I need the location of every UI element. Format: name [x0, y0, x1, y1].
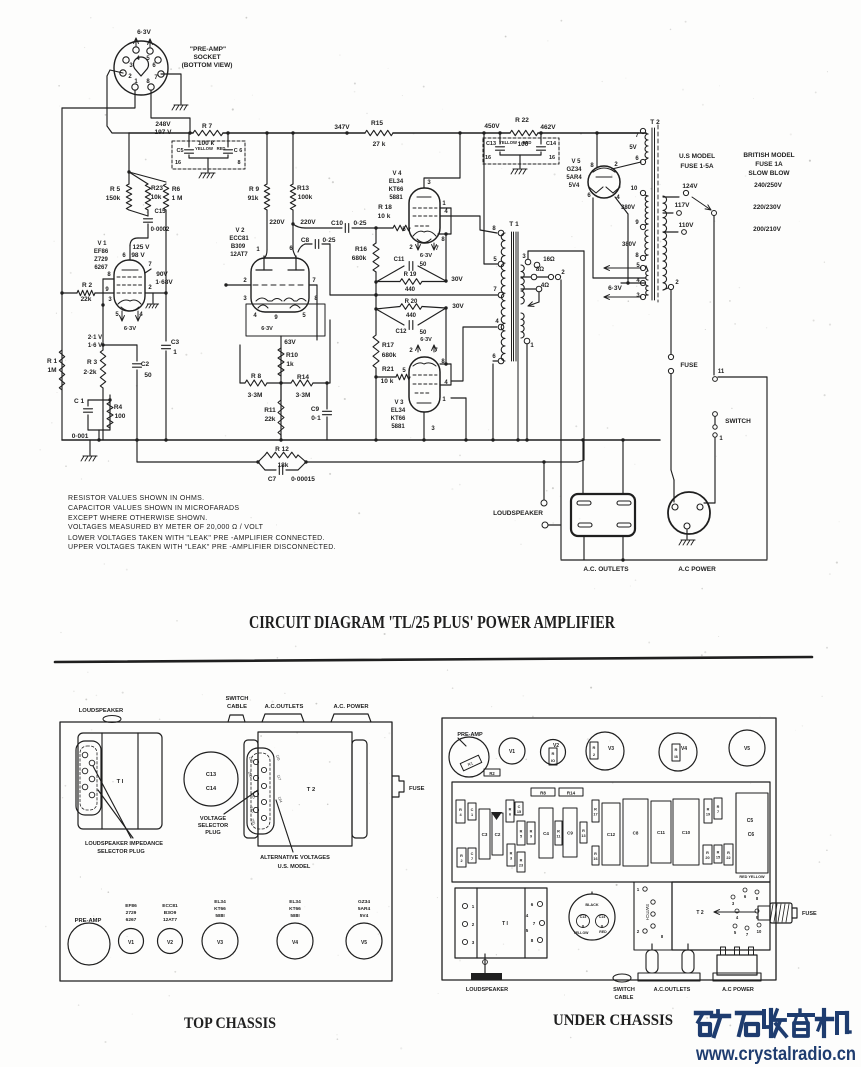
svg-text:EL34: EL34	[214, 899, 226, 905]
svg-text:C2: C2	[141, 361, 150, 368]
svg-text:16Ω: 16Ω	[543, 257, 555, 263]
svg-text:KT66: KT66	[389, 187, 404, 193]
svg-text:3: 3	[510, 857, 512, 861]
svg-text:V 5: V 5	[571, 159, 581, 165]
svg-text:C 6: C 6	[234, 148, 243, 154]
svg-text:16: 16	[175, 160, 181, 166]
svg-text:FUSE: FUSE	[409, 786, 425, 792]
svg-text:RED: RED	[599, 930, 607, 934]
svg-text:T 2: T 2	[307, 787, 315, 793]
svg-text:R14: R14	[567, 791, 576, 796]
svg-text:R23: R23	[151, 185, 163, 192]
svg-text:R: R	[717, 805, 720, 809]
svg-text:ALTERNATIVE VOLTAGES: ALTERNATIVE VOLTAGES	[260, 855, 330, 861]
svg-text:110V: 110V	[679, 222, 694, 229]
svg-text:16: 16	[549, 155, 555, 161]
svg-text:240/250V: 240/250V	[754, 182, 782, 189]
svg-text:A.C. OUTLETS: A.C. OUTLETS	[583, 566, 629, 573]
svg-text:GZ34: GZ34	[566, 167, 582, 173]
svg-text:SWITCH: SWITCH	[645, 904, 650, 921]
svg-text:R: R	[582, 829, 585, 833]
svg-text:SWITCH: SWITCH	[226, 696, 249, 702]
svg-text:T 2: T 2	[650, 119, 660, 126]
svg-text:9: 9	[530, 835, 532, 839]
svg-text:6267: 6267	[126, 917, 137, 923]
svg-text:R: R	[707, 808, 710, 812]
svg-text:C12: C12	[607, 832, 616, 837]
svg-text:C: C	[471, 852, 474, 856]
svg-text:22: 22	[726, 856, 730, 860]
svg-text:R 20: R 20	[405, 299, 418, 305]
svg-text:347V: 347V	[334, 124, 350, 131]
svg-text:C9: C9	[567, 831, 573, 836]
svg-text:C2: C2	[495, 832, 501, 837]
svg-text:20: 20	[705, 856, 709, 860]
svg-text:98 V: 98 V	[131, 252, 145, 259]
svg-text:R 22: R 22	[515, 117, 529, 124]
svg-text:II: II	[661, 934, 664, 939]
svg-text:T 2: T 2	[696, 910, 703, 916]
svg-text:6·3V: 6·3V	[420, 337, 432, 343]
svg-text:50: 50	[420, 330, 427, 336]
svg-text:V5: V5	[744, 746, 750, 752]
svg-text:C6: C6	[748, 832, 755, 838]
svg-text:T I: T I	[117, 779, 124, 785]
svg-text:5881: 5881	[391, 424, 405, 430]
svg-text:R10: R10	[286, 352, 298, 359]
svg-text:V3: V3	[217, 940, 223, 946]
svg-text:6·3V: 6·3V	[420, 253, 432, 259]
svg-text:C10: C10	[682, 830, 691, 835]
svg-text:R: R	[706, 851, 709, 855]
svg-text:A.C POWER: A.C POWER	[722, 987, 754, 993]
svg-text:SWITCH: SWITCH	[613, 987, 635, 993]
svg-text:R 19: R 19	[404, 272, 417, 278]
svg-text:CIRCUIT DIAGRAM 'TL/25 PLUS' P: CIRCUIT DIAGRAM 'TL/25 PLUS' POWER AMPLI…	[249, 612, 616, 632]
svg-text:V 4: V 4	[392, 171, 402, 177]
svg-text:220V: 220V	[300, 219, 316, 226]
svg-text:10k: 10k	[151, 194, 162, 201]
svg-text:R 2: R 2	[82, 282, 93, 289]
svg-text:R: R	[520, 830, 523, 834]
svg-text:C15: C15	[154, 209, 166, 215]
svg-text:124V: 124V	[682, 183, 698, 190]
svg-text:R 5: R 5	[110, 186, 121, 193]
svg-text:197 V: 197 V	[155, 129, 173, 136]
svg-text:R14: R14	[297, 374, 309, 381]
svg-text:FUSE 1A: FUSE 1A	[755, 161, 783, 168]
svg-text:1k: 1k	[286, 361, 294, 368]
svg-text:220V: 220V	[269, 219, 285, 226]
svg-text:UNDER CHASSIS: UNDER CHASSIS	[553, 1012, 673, 1029]
svg-text:5: 5	[520, 835, 522, 839]
svg-text:C7: C7	[268, 476, 277, 483]
svg-text:YELLOW: YELLOW	[195, 146, 213, 151]
svg-text:680k: 680k	[382, 352, 397, 359]
svg-text:U.S MODEL: U.S MODEL	[679, 153, 715, 160]
svg-text:16: 16	[593, 857, 597, 861]
svg-text:BLACK: BLACK	[585, 903, 599, 907]
svg-text:V4: V4	[681, 746, 687, 752]
svg-text:C13: C13	[206, 772, 216, 778]
svg-text:C13: C13	[486, 141, 496, 147]
svg-text:13: 13	[581, 834, 585, 838]
svg-text:6267: 6267	[94, 265, 108, 271]
svg-text:EL34: EL34	[391, 408, 406, 414]
svg-text:R 8: R 8	[251, 373, 262, 380]
svg-text:63V: 63V	[284, 339, 296, 346]
svg-text:30V: 30V	[452, 303, 464, 310]
svg-text:0·1: 0·1	[311, 415, 321, 422]
svg-text:C5: C5	[747, 818, 754, 824]
svg-text:R: R	[717, 851, 720, 855]
svg-text:R: R	[594, 852, 597, 856]
svg-text:7: 7	[471, 857, 473, 861]
svg-text:C14: C14	[206, 786, 217, 792]
svg-text:C11: C11	[657, 830, 666, 835]
svg-text:588I: 588I	[215, 913, 225, 919]
svg-text:6·3V: 6·3V	[261, 326, 273, 332]
svg-text:0·0002: 0·0002	[151, 227, 170, 233]
svg-text:117V: 117V	[675, 202, 690, 209]
svg-text:LOWER VOLTAGES TAKEN WITH: LOWER VOLTAGES TAKEN WITH "LEAK" PRE -AM…	[68, 535, 325, 542]
svg-text:50: 50	[420, 262, 427, 268]
svg-text:R 3: R 3	[87, 359, 98, 366]
svg-text:100k: 100k	[298, 194, 313, 201]
svg-text:0·25: 0·25	[322, 237, 335, 244]
svg-text:LOUDSPEAKER: LOUDSPEAKER	[466, 987, 508, 993]
svg-text:R: R	[593, 745, 596, 750]
svg-text:200/210V: 200/210V	[753, 226, 781, 233]
svg-text:BRITISH MODEL: BRITISH MODEL	[743, 152, 794, 159]
svg-text:FUSE: FUSE	[680, 362, 698, 369]
svg-text:C: C	[518, 805, 521, 809]
svg-text:R16: R16	[355, 246, 367, 253]
svg-text:VOLTAGE: VOLTAGE	[200, 816, 226, 822]
svg-text:220/230V: 220/230V	[753, 204, 781, 211]
svg-text:10 k: 10 k	[378, 213, 391, 220]
svg-text:ECC81: ECC81	[229, 236, 249, 242]
svg-text:10: 10	[757, 929, 762, 934]
svg-text:10 k: 10 k	[381, 378, 394, 385]
svg-text:R 12: R 12	[275, 446, 289, 453]
svg-text:EF86: EF86	[94, 249, 109, 255]
svg-text:16: 16	[485, 155, 491, 161]
svg-text:GZ34: GZ34	[358, 899, 370, 905]
svg-text:(BOTTOM VIEW): (BOTTOM VIEW)	[182, 62, 233, 69]
svg-text:PRE-AMP: PRE-AMP	[75, 918, 102, 924]
svg-text:KT66: KT66	[289, 906, 301, 912]
svg-text:RED: RED	[523, 140, 532, 145]
svg-text:KT66: KT66	[391, 416, 406, 422]
svg-text:248V: 248V	[155, 121, 171, 128]
svg-text:A.C. POWER: A.C. POWER	[333, 704, 369, 710]
svg-text:PRE-AMP: PRE-AMP	[457, 732, 483, 738]
svg-text:8: 8	[237, 160, 240, 166]
svg-text:27 k: 27 k	[373, 141, 386, 148]
svg-text:R 9: R 9	[249, 186, 260, 193]
svg-text:R: R	[459, 808, 462, 812]
svg-text:U.S. MODEL: U.S. MODEL	[278, 864, 311, 870]
svg-text:A.C POWER: A.C POWER	[678, 566, 716, 573]
svg-text:R: R	[530, 830, 533, 834]
svg-text:R: R	[520, 859, 523, 863]
svg-text:3·3M: 3·3M	[296, 392, 311, 399]
svg-text:588I: 588I	[290, 913, 300, 919]
svg-text:3·3M: 3·3M	[248, 392, 263, 399]
svg-text:V4: V4	[292, 940, 298, 946]
svg-text:C3: C3	[171, 339, 180, 346]
svg-text:5AR4: 5AR4	[358, 906, 371, 912]
svg-text:FUSE 1·5A: FUSE 1·5A	[680, 163, 714, 170]
svg-text:380V: 380V	[622, 242, 636, 248]
svg-text:100: 100	[115, 413, 126, 420]
svg-text:LOUDSPEAKER: LOUDSPEAKER	[493, 510, 543, 517]
svg-text:50: 50	[144, 372, 152, 379]
svg-text:R15: R15	[371, 120, 383, 127]
svg-text:R 1: R 1	[47, 358, 58, 365]
svg-text:1M: 1M	[47, 367, 56, 374]
svg-text:30V: 30V	[451, 276, 463, 283]
svg-text:C12: C12	[395, 329, 407, 335]
svg-text:6·3V: 6·3V	[124, 326, 136, 332]
svg-text:22k: 22k	[81, 296, 92, 303]
svg-text:1·6 V: 1·6 V	[88, 343, 102, 349]
svg-text:15: 15	[517, 810, 521, 814]
svg-text:A.C.OUTLETS: A.C.OUTLETS	[265, 704, 304, 710]
svg-text:11: 11	[718, 369, 725, 375]
svg-text:C9: C9	[311, 406, 320, 413]
svg-text:PLUG: PLUG	[205, 830, 221, 836]
svg-text:R13: R13	[297, 185, 309, 192]
svg-text:CABLE: CABLE	[615, 995, 634, 1001]
svg-text:V1: V1	[509, 749, 515, 755]
svg-text:RESISTOR VALUES SHOWN IN O: RESISTOR VALUES SHOWN IN OHMS.	[68, 495, 204, 502]
svg-text:10: 10	[631, 186, 638, 192]
svg-text:R: R	[460, 854, 463, 858]
svg-text:CAPACITOR VALUES SHOWN IN: CAPACITOR VALUES SHOWN IN MICROFARADS	[68, 505, 239, 512]
svg-text:C14: C14	[546, 141, 557, 147]
svg-text:R2: R2	[489, 771, 495, 776]
svg-text:C 1: C 1	[74, 398, 85, 405]
svg-text:1·68V: 1·68V	[155, 279, 173, 286]
svg-text:V1: V1	[128, 940, 134, 946]
svg-text:EL34: EL34	[289, 899, 301, 905]
svg-text:TOP CHASSIS: TOP CHASSIS	[184, 1015, 276, 1032]
svg-text:6: 6	[509, 813, 511, 817]
svg-text:V2: V2	[167, 940, 173, 946]
svg-text:C3: C3	[482, 832, 488, 837]
svg-text:R: R	[675, 747, 678, 752]
svg-text:5V4: 5V4	[569, 183, 580, 189]
svg-text:12AT7: 12AT7	[230, 252, 248, 258]
svg-text:IO: IO	[551, 758, 555, 763]
svg-text:FUSE: FUSE	[802, 911, 817, 917]
svg-text:SLOW BLOW: SLOW BLOW	[748, 170, 790, 177]
svg-text:V 3: V 3	[394, 400, 404, 406]
svg-text:680k: 680k	[352, 255, 367, 262]
svg-text:5AR4: 5AR4	[566, 175, 582, 181]
svg-text:C11: C11	[394, 257, 405, 263]
svg-text:4Ω: 4Ω	[541, 283, 549, 289]
svg-text:VOLTAGES MEASURED BY METER: VOLTAGES MEASURED BY METER OF 20,000 Ω /…	[68, 524, 264, 531]
svg-text:22k: 22k	[265, 416, 276, 423]
svg-text:R: R	[557, 830, 560, 834]
svg-text:5881: 5881	[389, 195, 403, 201]
svg-text:SWITCH: SWITCH	[725, 418, 751, 425]
svg-text:2729: 2729	[126, 910, 137, 916]
svg-text:R11: R11	[264, 407, 276, 414]
svg-text:5V: 5V	[629, 145, 636, 151]
svg-text:R21: R21	[382, 366, 394, 373]
svg-text:RED YELLOW: RED YELLOW	[739, 875, 765, 879]
svg-text:125 V: 125 V	[133, 244, 151, 251]
svg-text:7: 7	[717, 810, 719, 814]
svg-text:C10: C10	[331, 220, 343, 227]
svg-text:SOCKET: SOCKET	[193, 54, 220, 61]
svg-text:R8: R8	[540, 791, 546, 796]
svg-text:C4: C4	[543, 831, 549, 836]
svg-text:EF86: EF86	[125, 903, 137, 909]
svg-text:15: 15	[716, 856, 720, 860]
svg-text:C14: C14	[599, 915, 606, 919]
svg-text:2: 2	[460, 859, 462, 863]
svg-text:C: C	[471, 808, 474, 812]
svg-text:SELECTOR PLUG: SELECTOR PLUG	[97, 849, 144, 855]
svg-text:R6: R6	[172, 186, 181, 193]
svg-text:17: 17	[593, 813, 597, 817]
svg-text:0·25: 0·25	[353, 220, 366, 227]
svg-text:V 2: V 2	[235, 228, 245, 234]
svg-text:440: 440	[406, 313, 417, 319]
svg-text:8Ω: 8Ω	[536, 267, 544, 273]
svg-text:450V: 450V	[484, 123, 500, 130]
svg-text:5V4: 5V4	[360, 913, 369, 919]
svg-text:19: 19	[706, 813, 710, 817]
svg-text:B3O9: B3O9	[164, 910, 177, 916]
svg-text:T 1: T 1	[509, 221, 519, 228]
svg-text:Z729: Z729	[94, 257, 108, 263]
svg-text:440: 440	[405, 287, 416, 293]
svg-text:23: 23	[519, 864, 523, 868]
svg-text:R: R	[594, 808, 597, 812]
svg-text:V 1: V 1	[97, 241, 107, 247]
svg-text:1 M: 1 M	[172, 195, 183, 202]
svg-text:2·2k: 2·2k	[83, 369, 96, 376]
svg-text:C13: C13	[580, 915, 587, 919]
svg-text:EL34: EL34	[389, 179, 404, 185]
svg-text:0·00015: 0·00015	[291, 476, 315, 483]
svg-text:C8: C8	[301, 237, 310, 244]
svg-text:C8: C8	[633, 831, 639, 836]
svg-text:T I: T I	[502, 921, 508, 927]
svg-text:R: R	[727, 851, 730, 855]
svg-text:V2: V2	[553, 743, 559, 749]
svg-text:V3: V3	[608, 746, 614, 752]
svg-text:KT66: KT66	[214, 906, 226, 912]
svg-text:R 18: R 18	[378, 204, 392, 211]
svg-text:RED: RED	[217, 146, 226, 151]
svg-text:1: 1	[471, 813, 473, 817]
svg-text:LOUDSPEAKER: LOUDSPEAKER	[79, 708, 124, 714]
svg-text:ECC81: ECC81	[162, 903, 178, 909]
svg-text:12AT7: 12AT7	[163, 917, 177, 923]
svg-text:R: R	[552, 751, 555, 756]
svg-text:C5: C5	[176, 148, 183, 154]
svg-text:91k: 91k	[248, 195, 259, 202]
svg-text:150k: 150k	[106, 195, 121, 202]
svg-text:CABLE: CABLE	[227, 704, 247, 710]
svg-text:www.crystalradio.cn: www.crystalradio.cn	[695, 1044, 856, 1065]
svg-text:380V: 380V	[621, 205, 635, 211]
svg-text:11: 11	[556, 835, 560, 839]
svg-text:YELLOW: YELLOW	[574, 931, 590, 935]
svg-text:"PRE-AMP": "PRE-AMP"	[190, 46, 226, 53]
svg-text:90V: 90V	[156, 271, 168, 278]
svg-text:A.C.OUTLETS: A.C.OUTLETS	[654, 987, 691, 993]
svg-text:R17: R17	[382, 342, 394, 349]
svg-text:R4: R4	[114, 404, 123, 411]
svg-text:R 7: R 7	[202, 123, 213, 130]
svg-text:6·3V: 6·3V	[608, 285, 622, 292]
svg-text:1: 1	[173, 349, 177, 356]
svg-text:6·3V: 6·3V	[137, 29, 151, 36]
svg-text:R: R	[509, 808, 512, 812]
svg-text:2·1 V: 2·1 V	[88, 335, 102, 341]
svg-text:UPPER VOLTAGES TAKEN WITH: UPPER VOLTAGES TAKEN WITH "LEAK" PRE -AM…	[68, 544, 336, 551]
svg-text:EXCEPT WHERE OTHERWISE SHOW: EXCEPT WHERE OTHERWISE SHOWN.	[68, 515, 208, 522]
svg-text:V5: V5	[361, 940, 367, 946]
svg-text:B309: B309	[231, 244, 246, 250]
svg-text:R: R	[510, 852, 513, 856]
svg-text:18k: 18k	[278, 462, 289, 469]
svg-text:462V: 462V	[540, 124, 556, 131]
svg-text:0·001: 0·001	[72, 433, 89, 440]
svg-text:YELLOW: YELLOW	[499, 140, 517, 145]
svg-text:LOUDSPEAKER IMPEDANCE: LOUDSPEAKER IMPEDANCE	[85, 841, 163, 847]
svg-text:SELECTOR: SELECTOR	[198, 823, 228, 829]
